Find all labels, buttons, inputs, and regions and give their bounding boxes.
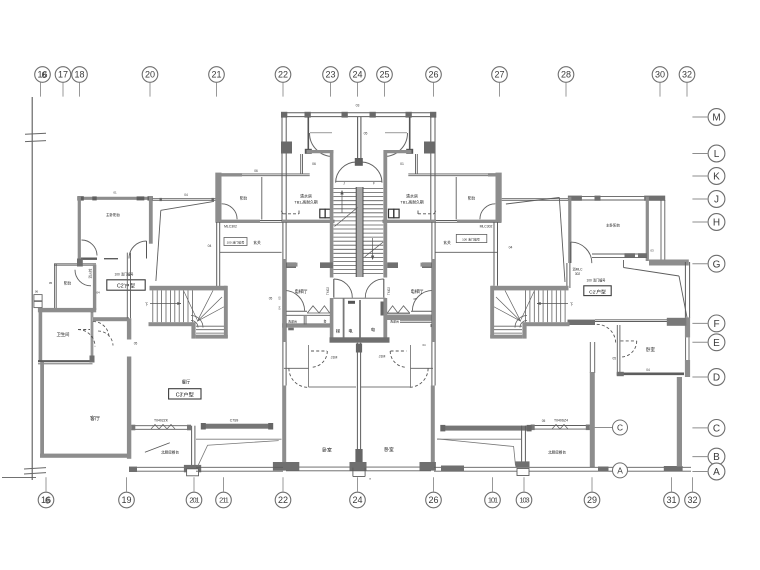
grid bubble 31 bbox=[664, 492, 680, 508]
left wing top wall bbox=[78, 197, 153, 200]
grid bubble 21 bbox=[209, 67, 225, 83]
elevator side strip bbox=[381, 302, 384, 316]
svg-text:C: C bbox=[713, 424, 720, 435]
right duct bbox=[437, 438, 522, 440]
svg-text:6: 6 bbox=[41, 70, 46, 80]
small balcony top wall bbox=[54, 263, 96, 265]
grid bubble 28 bbox=[558, 67, 574, 83]
zigzag window left bbox=[307, 312, 330, 314]
svg-text:22: 22 bbox=[278, 495, 288, 505]
hall outline bbox=[309, 386, 357, 388]
svg-text:T040SZ4: T040SZ4 bbox=[554, 418, 568, 422]
grid bubble M bbox=[708, 109, 725, 126]
grid bubble E bbox=[708, 334, 725, 351]
small balcony door arc bbox=[75, 270, 91, 286]
leader for row M bbox=[692, 116, 708, 118]
bedroom west wall bbox=[282, 386, 286, 468]
hall top wall center-right bbox=[383, 220, 437, 223]
right stub wall bbox=[421, 263, 432, 267]
duct strip west wall bbox=[660, 200, 662, 260]
far right wall upper bbox=[684, 262, 686, 318]
stairwell west wall bbox=[330, 150, 334, 278]
wall ticks bbox=[160, 198, 162, 201]
svg-text:F: F bbox=[713, 319, 719, 330]
shaft bottom wall bbox=[330, 337, 390, 342]
leader for bottom grid 16 bbox=[45, 477, 47, 492]
right step pier bbox=[496, 173, 502, 222]
dashed fitting right bbox=[418, 213, 434, 215]
grid bubble C bbox=[708, 420, 725, 437]
leader for row H bbox=[692, 221, 708, 223]
grid bubble 101 bbox=[485, 492, 501, 508]
stairwell east wall bbox=[383, 150, 387, 278]
svg-text:26: 26 bbox=[428, 495, 438, 505]
leader for row C bbox=[692, 427, 708, 429]
svg-text:17: 17 bbox=[58, 70, 68, 80]
svg-text:卧室: 卧室 bbox=[384, 446, 394, 453]
leader for bottom grid 201 bbox=[193, 477, 195, 492]
elevator shaft west wall bbox=[330, 298, 334, 342]
grid bubble 22 bbox=[275, 492, 291, 508]
stair walking line right bbox=[372, 238, 374, 260]
svg-text:01: 01 bbox=[400, 162, 404, 166]
svg-text:05: 05 bbox=[364, 132, 368, 136]
bedroom east wall left wing bbox=[149, 197, 153, 244]
secondary stair bottom wall lower bbox=[196, 335, 228, 339]
svg-text:04: 04 bbox=[509, 246, 513, 250]
grid bubble D bbox=[708, 369, 725, 386]
svg-text:卫生间: 卫生间 bbox=[57, 331, 70, 338]
right master south wall segs bbox=[592, 253, 647, 255]
right secondary stair bottom wall upper bbox=[526, 322, 570, 326]
secondary stair east wall bbox=[224, 286, 228, 338]
entry door arc right bbox=[384, 133, 408, 157]
grid bubble J bbox=[708, 191, 725, 208]
balcony divider bbox=[261, 177, 263, 220]
svg-text:北厨房餐台: 北厨房餐台 bbox=[548, 450, 566, 455]
svg-text:电梯厅: 电梯厅 bbox=[295, 288, 309, 295]
svg-text:03: 03 bbox=[356, 104, 360, 108]
secondary stair treads left wing bbox=[152, 290, 154, 322]
right stair walking diagonal bbox=[521, 292, 534, 320]
bedroom door leaf bbox=[146, 241, 148, 259]
bottom right corner block bbox=[664, 466, 683, 471]
left border line bbox=[31, 97, 33, 480]
stub wall bbox=[287, 263, 298, 267]
border break tick lower bbox=[24, 468, 46, 469]
left wing west wall upper bbox=[78, 197, 81, 267]
svg-text:主卧阳台: 主卧阳台 bbox=[606, 223, 620, 228]
right bedroom west wall bbox=[616, 325, 618, 376]
grid bubble 20 bbox=[142, 67, 158, 83]
svg-text:27: 27 bbox=[494, 70, 504, 80]
tall wall x129 bbox=[127, 318, 131, 459]
leader for bottom grid 22 bbox=[282, 477, 284, 492]
svg-text:A: A bbox=[617, 466, 623, 476]
right balcony top wall bbox=[408, 173, 488, 175]
leader for inline C bbox=[594, 427, 613, 429]
right secondary stair lower treads bbox=[494, 325, 522, 327]
shaft divider 1 bbox=[343, 298, 345, 338]
svg-text:05: 05 bbox=[413, 297, 417, 301]
grid bubble 103 bbox=[516, 492, 532, 508]
far right bay diagonal bbox=[624, 268, 680, 277]
bedroom east wall bbox=[431, 386, 435, 468]
leader for row A bbox=[692, 471, 708, 473]
grid bubble 211 bbox=[216, 492, 232, 508]
elevator hall door arc right bbox=[412, 290, 432, 310]
bottom-left datum line bbox=[2, 477, 36, 479]
right master door leaf bbox=[570, 242, 572, 263]
fire box label bbox=[224, 238, 247, 246]
svg-text:201: 201 bbox=[189, 496, 199, 505]
grid bubble 32 bbox=[685, 492, 701, 508]
grid bubble H bbox=[708, 214, 725, 231]
right fire box label bbox=[456, 234, 487, 242]
stair walking diagonal bbox=[184, 292, 197, 320]
grid bubble 18 bbox=[72, 67, 88, 83]
svg-text:C: C bbox=[617, 423, 623, 433]
top wall columns bbox=[281, 112, 287, 118]
svg-text:32: 32 bbox=[682, 70, 692, 80]
leader for grid 18 bbox=[79, 83, 81, 97]
svg-text:J1M: J1M bbox=[379, 355, 386, 359]
right master top wall bbox=[568, 196, 665, 198]
entry hall line bbox=[336, 180, 383, 182]
double entry arc right bbox=[361, 162, 382, 183]
svg-text:阳台: 阳台 bbox=[468, 196, 476, 201]
svg-text:103: 103 bbox=[519, 496, 529, 505]
leader for bottom grid 31 bbox=[671, 477, 673, 492]
grid bubble 26 bbox=[426, 67, 442, 83]
leader for bottom grid 32 bbox=[692, 477, 694, 492]
svg-text:05: 05 bbox=[542, 419, 546, 423]
grid bubble 16 bbox=[38, 492, 54, 508]
foyer divider line bbox=[220, 251, 282, 253]
living south wall bbox=[40, 454, 129, 458]
F row wall bbox=[595, 319, 667, 321]
svg-text:北厨房餐台: 北厨房餐台 bbox=[161, 450, 179, 455]
grid bubble 23 bbox=[323, 67, 339, 83]
step wall pier bbox=[215, 173, 221, 222]
leader for grid 23 bbox=[330, 83, 332, 97]
stair landing door right bbox=[383, 279, 385, 298]
kitchen window bbox=[131, 425, 191, 427]
svg-text:26: 26 bbox=[428, 70, 438, 80]
kitchen slash note bbox=[145, 443, 170, 453]
stair landing door left bbox=[333, 279, 335, 298]
bath west wall bbox=[39, 310, 43, 362]
svg-text:阳台: 阳台 bbox=[64, 281, 72, 286]
svg-text:梯: 梯 bbox=[336, 328, 340, 335]
shaft divider 2 bbox=[359, 300, 361, 338]
dashed side arc left bbox=[289, 368, 308, 387]
top wall of entrance block bbox=[281, 112, 436, 114]
far right wall dark segments bbox=[685, 317, 690, 337]
porch room top wall right bbox=[384, 150, 412, 153]
svg-text:C2'户型: C2'户型 bbox=[117, 282, 135, 290]
inline bubble C bbox=[613, 420, 628, 435]
small balcony east wall bbox=[93, 265, 96, 311]
balcony door arc left wing bbox=[222, 204, 237, 219]
center block west wall lower bbox=[282, 222, 284, 386]
svg-text:阳台: 阳台 bbox=[240, 196, 248, 201]
right secondary stair west wall bbox=[490, 286, 494, 338]
leader for row K bbox=[692, 175, 708, 177]
svg-text:D: D bbox=[713, 373, 720, 384]
entrance block left wall bbox=[281, 117, 283, 222]
kitchen window zigzag bbox=[151, 425, 175, 430]
leader for row D bbox=[692, 376, 708, 378]
grid bubble 27 bbox=[492, 67, 508, 83]
leader for grid 26 bbox=[433, 83, 435, 97]
right secondary stair handrail arcs bbox=[520, 321, 527, 328]
svg-text:卧室: 卧室 bbox=[646, 346, 655, 353]
right master west wall lower bbox=[566, 263, 568, 288]
leader for grid 32 bbox=[686, 83, 688, 97]
grid bubble 16 bbox=[35, 67, 51, 83]
grid bubble A bbox=[708, 463, 725, 480]
grid bubble 22 bbox=[275, 67, 291, 83]
upper wall at K row bbox=[216, 173, 243, 176]
secondary stair top wall left wing bbox=[150, 286, 227, 291]
stair treads bbox=[334, 188, 384, 190]
bay window diagonal top bbox=[161, 201, 214, 210]
svg-text:100 消门编号: 100 消门编号 bbox=[227, 239, 245, 244]
entry threshold block bbox=[355, 158, 363, 166]
elevator door lintel bbox=[348, 301, 355, 304]
below-shaft center wall bbox=[356, 343, 358, 462]
closet dashed door right bbox=[391, 350, 407, 352]
washroom cells right bbox=[387, 312, 410, 314]
elevator hall door arc left bbox=[284, 290, 304, 310]
leader for bottom grid 19 bbox=[126, 477, 128, 492]
svg-text:洗漱台: 洗漱台 bbox=[288, 318, 297, 323]
leader for row E bbox=[692, 341, 708, 343]
right dashed door 2 bbox=[597, 324, 616, 343]
svg-text:L: L bbox=[714, 149, 720, 160]
dashed door arc kitchen side bbox=[98, 331, 113, 346]
grid bubble 19 bbox=[119, 492, 135, 508]
landing edge bbox=[334, 297, 386, 299]
sill C7S9 bbox=[202, 424, 274, 429]
right master west wall bbox=[568, 197, 571, 263]
svg-text:T0402ZK: T0402ZK bbox=[154, 419, 169, 423]
porch room top wall left bbox=[307, 150, 334, 153]
grid bubble L bbox=[708, 145, 725, 162]
grid bubble F bbox=[708, 315, 725, 332]
wall above living bbox=[93, 317, 130, 321]
svg-text:TM02: TM02 bbox=[326, 287, 330, 295]
svg-text:6: 6 bbox=[45, 495, 50, 505]
hall top wall thin segment bbox=[260, 220, 282, 222]
column right bbox=[424, 142, 435, 154]
hall top wall thin right bbox=[436, 220, 457, 222]
svg-text:24: 24 bbox=[352, 495, 362, 505]
svg-text:台: 台 bbox=[323, 318, 326, 323]
right master east wall bbox=[646, 197, 649, 261]
svg-text:06: 06 bbox=[254, 169, 258, 173]
svg-text:100 消门编号: 100 消门编号 bbox=[462, 237, 480, 242]
bath corner block bbox=[90, 356, 95, 363]
leader for bottom grid 101 bbox=[492, 477, 494, 492]
elevator shaft east wall bbox=[383, 298, 387, 342]
inline bubble A bbox=[613, 463, 628, 478]
svg-text:100 消门编号: 100 消门编号 bbox=[587, 278, 606, 283]
leader for grid 22 bbox=[282, 83, 284, 97]
G-row wall stubs bbox=[284, 262, 297, 268]
right balcony divider bbox=[455, 177, 457, 220]
right thick sill bbox=[441, 426, 531, 431]
F row connector wall bbox=[568, 320, 596, 325]
secondary stair handrail arcs bbox=[191, 321, 198, 328]
west wall end cap bbox=[77, 259, 83, 267]
right kitchen east wall bbox=[521, 426, 523, 468]
foyer east wall bbox=[216, 222, 218, 286]
leader for bottom grid 29 bbox=[591, 477, 593, 492]
svg-text:B: B bbox=[713, 452, 720, 463]
leader for row G bbox=[692, 263, 708, 265]
double entry arc left bbox=[336, 162, 357, 183]
leader for bottom grid 26 bbox=[433, 477, 435, 492]
small balcony west wall bbox=[54, 264, 56, 310]
right bedroom south wall bbox=[617, 372, 684, 375]
svg-text:MLC302: MLC302 bbox=[480, 224, 493, 228]
stair stringer bbox=[356, 187, 363, 277]
svg-text:F: F bbox=[373, 182, 375, 186]
svg-text:卧室: 卧室 bbox=[322, 447, 332, 454]
svg-text:主卧阳台: 主卧阳台 bbox=[106, 212, 120, 217]
svg-text:21: 21 bbox=[211, 70, 221, 80]
svg-text:29: 29 bbox=[587, 495, 597, 505]
unit label C2 right bbox=[584, 286, 611, 296]
svg-text:A: A bbox=[713, 467, 720, 478]
center door stub bbox=[352, 468, 354, 477]
entry door arc left bbox=[310, 133, 334, 157]
svg-text:28: 28 bbox=[561, 70, 571, 80]
bedroom south wall segments bbox=[81, 258, 97, 260]
svg-text:06: 06 bbox=[35, 290, 39, 294]
closet dashed door left bbox=[311, 350, 327, 352]
svg-text:18: 18 bbox=[74, 70, 84, 80]
svg-text:J: J bbox=[714, 195, 719, 206]
unit label C3 bbox=[169, 389, 201, 399]
center block east wall lower bbox=[431, 222, 433, 386]
washroom bottom wall right bbox=[387, 315, 435, 321]
washroom bottom wall left bbox=[282, 324, 330, 327]
grid bubble 25 bbox=[377, 67, 393, 83]
leader for row F bbox=[692, 322, 708, 324]
G row wall bbox=[649, 260, 689, 266]
border break tick upper bbox=[25, 133, 46, 134]
right balcony door arc bbox=[480, 204, 495, 219]
west door arc master bbox=[82, 240, 98, 256]
leader for grid 24 bbox=[357, 83, 359, 97]
top wall thin continuation bbox=[153, 198, 216, 200]
svg-text:M: M bbox=[712, 113, 720, 124]
dashed fitting left bbox=[283, 213, 299, 215]
bottom wall left-center bbox=[196, 466, 283, 468]
leader for row J bbox=[692, 198, 708, 200]
stair direction arrow bbox=[150, 303, 181, 305]
leader for grid 25 bbox=[384, 83, 386, 97]
grid bubble K bbox=[708, 168, 725, 185]
kitchen bottom wall bbox=[129, 466, 196, 468]
kitchen east wall bbox=[191, 426, 193, 468]
svg-text:20: 20 bbox=[145, 70, 155, 80]
svg-text:03: 03 bbox=[650, 249, 654, 253]
right secondary stair top wall bbox=[491, 286, 568, 291]
svg-text:电梯厅: 电梯厅 bbox=[411, 288, 425, 295]
bath east wall bbox=[90, 312, 92, 361]
duct line bbox=[196, 438, 282, 440]
svg-text:04: 04 bbox=[96, 291, 100, 295]
svg-text:302: 302 bbox=[575, 272, 581, 276]
stair walking line left bbox=[341, 191, 343, 214]
svg-text:J1M: J1M bbox=[331, 356, 338, 360]
svg-text:31: 31 bbox=[666, 495, 676, 505]
svg-text:C2'户型: C2'户型 bbox=[589, 288, 606, 295]
svg-text:消MLC: 消MLC bbox=[573, 267, 584, 272]
svg-text:19: 19 bbox=[121, 495, 131, 505]
window symbol right bbox=[389, 209, 394, 218]
svg-text:餐厅: 餐厅 bbox=[182, 379, 191, 386]
entrance block right wall bbox=[430, 117, 432, 222]
right tall wall bbox=[589, 342, 591, 373]
svg-text:清水房: 清水房 bbox=[300, 193, 312, 199]
svg-text:C3'户型: C3'户型 bbox=[176, 391, 194, 399]
small balcony south wall bbox=[38, 308, 96, 312]
svg-text:玄关: 玄关 bbox=[443, 240, 451, 245]
svg-text:04: 04 bbox=[278, 306, 282, 310]
svg-text:25: 25 bbox=[379, 70, 389, 80]
grid bubble 17 bbox=[55, 67, 71, 83]
svg-text:G: G bbox=[713, 259, 721, 270]
svg-text:H: H bbox=[713, 218, 720, 229]
svg-text:TB1,高耐久期: TB1,高耐久期 bbox=[294, 200, 317, 205]
side lines at hall bbox=[284, 367, 309, 369]
bedroom door arc bbox=[129, 241, 147, 259]
leader for bottom grid 211 bbox=[223, 477, 225, 492]
grid bubble 24 bbox=[350, 67, 366, 83]
svg-text:211: 211 bbox=[219, 496, 229, 505]
hall top wall right segment bbox=[457, 220, 502, 223]
right bottom wall bbox=[434, 466, 691, 468]
hall top wall center-left bbox=[282, 220, 335, 223]
right lower east wall bbox=[677, 377, 682, 467]
leader for bottom grid 103 bbox=[523, 477, 525, 492]
far right slant bbox=[679, 276, 687, 318]
svg-text:04: 04 bbox=[422, 343, 426, 347]
dashed side arc right bbox=[409, 368, 428, 387]
upper thin wall x129 bbox=[126, 253, 128, 319]
grid bubble 24 bbox=[350, 492, 366, 508]
svg-text:E: E bbox=[713, 338, 720, 349]
svg-text:玄关: 玄关 bbox=[253, 240, 261, 245]
secondary stair bottom wall upper bbox=[149, 322, 193, 326]
right stair arrow bbox=[537, 303, 568, 305]
right door stub bbox=[517, 469, 529, 476]
svg-text:C7S9: C7S9 bbox=[230, 418, 239, 422]
svg-text:05: 05 bbox=[278, 296, 282, 300]
secondary stair winder fan bbox=[197, 291, 213, 322]
svg-text:清水房: 清水房 bbox=[406, 193, 418, 199]
svg-text:04: 04 bbox=[646, 368, 650, 372]
svg-text:30: 30 bbox=[655, 70, 665, 80]
dashed arc near wall bbox=[93, 322, 109, 338]
leader for grid 16 bbox=[40, 83, 42, 97]
grid bubble B bbox=[708, 448, 725, 465]
